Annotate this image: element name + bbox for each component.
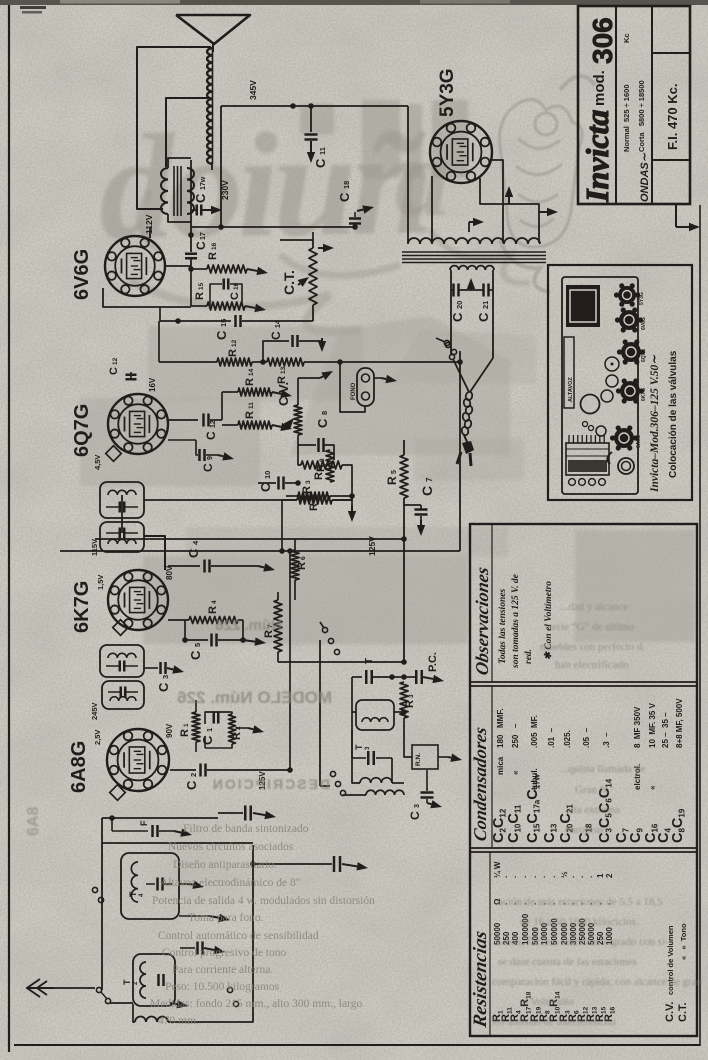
svg-text:C.T.: C.T.: [281, 270, 297, 295]
svg-text:T: T: [354, 744, 364, 750]
svg-text:C: C: [337, 192, 352, 202]
ground P.C.: [423, 677, 433, 679]
svg-text:16V: 16V: [148, 377, 157, 392]
wire aerial loop: [137, 47, 211, 209]
svg-text:ALTAVOZ: ALTAVOZ: [568, 377, 574, 402]
svg-text:los antenas de interferencias: los antenas de interferencias: [492, 1016, 616, 1028]
resistor R4 / C5 parallel: [168, 619, 189, 621]
svg-text:Todas las tensiones: Todas las tensiones: [498, 589, 508, 664]
aerial switch: [96, 987, 101, 992]
FONO jack: [357, 368, 374, 406]
svg-text:C.T.: C.T.: [677, 1002, 689, 1022]
title block F.I. box: [652, 52, 690, 54]
ground R.N.: [438, 756, 448, 758]
wire 6V6G plate: [164, 265, 191, 267]
svg-text:Resistencias: Resistencias: [470, 929, 491, 1030]
ground R15: [245, 306, 255, 308]
svg-text:red.: red.: [524, 649, 534, 664]
svg-text:Medidas: fondo 215 mm., alto 3: Medidas: fondo 215 mm., alto 300 mm., la…: [150, 998, 362, 1010]
ground C3: [167, 668, 173, 669]
wire bus x352: [351, 490, 353, 500]
svg-text:345V: 345V: [248, 80, 258, 100]
ground arrow heater tap: [468, 222, 470, 232]
svg-text:C: C: [193, 193, 208, 203]
valve 6Q7G location: [621, 342, 641, 362]
svg-text:470 mm.: 470 mm.: [158, 1015, 199, 1027]
svg-text:R.N.: R.N.: [415, 753, 422, 766]
wire to T2: [110, 1002, 133, 1004]
svg-text:Peso: 10.500 kilogramos: Peso: 10.500 kilogramos: [165, 981, 280, 993]
svg-text:...quista llamada de: ...quista llamada de: [560, 763, 645, 775]
svg-text:12: 12: [112, 357, 119, 365]
resistor R16: [207, 265, 247, 273]
svg-text:P.C.: P.C.: [427, 652, 439, 672]
svg-text:2: 2: [605, 873, 614, 878]
aerial input arrow: [28, 987, 54, 989]
svg-text:2,5V: 2,5V: [93, 730, 102, 745]
svg-text:17: 17: [200, 232, 207, 240]
bottom coil pair: [135, 1017, 168, 1022]
svg-text:C: C: [315, 418, 330, 428]
antenna coil L1: [207, 48, 212, 164]
ground R4C5: [243, 640, 255, 642]
ground R14: [272, 392, 281, 394]
svg-text:.3 –: .3 –: [602, 732, 611, 748]
ground R11: [272, 425, 281, 427]
svg-text:R: R: [404, 700, 416, 708]
arrow T4 right: [210, 916, 219, 918]
svg-text:5Y3G: 5Y3G: [437, 68, 458, 117]
wire 5Y3G cathode: [431, 176, 433, 243]
wire coil box link: [394, 711, 404, 713]
capacitor C8: [297, 435, 299, 460]
svg-text:.025.: .025.: [563, 730, 572, 748]
capacitor C14: [263, 341, 289, 362]
table section divider 1: [470, 681, 697, 683]
wire 125V rail: [95, 538, 404, 540]
wire left column down: [158, 321, 160, 362]
svg-text:8 MF 350V: 8 MF 350V: [633, 706, 642, 748]
svg-text:5: 5: [391, 470, 398, 474]
resistor R10: [298, 492, 330, 500]
svg-text:125V: 125V: [367, 536, 377, 556]
svg-text:15: 15: [219, 319, 228, 327]
svg-text:mica: mica: [496, 756, 505, 775]
svg-text:Filtro de banda sintonizado: Filtro de banda sintonizado: [183, 823, 309, 835]
ground arrow rectifier: [508, 197, 510, 204]
svg-text:13: 13: [280, 366, 287, 374]
band coil T4 box: [121, 853, 179, 919]
svg-text:16: 16: [233, 282, 240, 290]
capacitor C4: [168, 565, 200, 567]
svg-text:ONDAS∼: ONDAS∼: [639, 152, 651, 202]
ground C7: [420, 520, 422, 525]
wire top elbow to R13 bus: [297, 378, 299, 396]
ground arrow HV out: [539, 211, 547, 213]
svg-text:Colocación de las válvulas: Colocación de las válvulas: [668, 350, 679, 478]
filament winding: [450, 266, 494, 270]
svg-text:mod.: mod.: [591, 70, 608, 106]
ground C4: [258, 566, 264, 567]
svg-text:306: 306: [587, 17, 618, 64]
table header divider lines: [491, 524, 493, 682]
svg-text:de 16 a 50 1600 kilociclos.: de 16 a 50 1600 kilociclos.: [520, 916, 639, 928]
svg-text:20: 20: [455, 301, 464, 309]
capacitor C21: [482, 284, 485, 297]
wire FONO stem: [340, 362, 365, 412]
resistor R6: [291, 550, 299, 580]
wire mains V: [453, 359, 469, 392]
svg-text:«: «: [648, 785, 657, 790]
title block frame: [578, 6, 690, 204]
svg-text:6A8G: 6A8G: [68, 741, 90, 793]
svg-text:8+8 MF, 500V: 8+8 MF, 500V: [675, 698, 684, 748]
svg-text:C: C: [108, 367, 120, 375]
capacitor C3: [144, 667, 158, 669]
svg-text:8: 8: [320, 411, 329, 415]
ground C14: [299, 340, 322, 342]
wire HT secondary left: [450, 270, 452, 355]
svg-text:¼ W: ¼ W: [493, 861, 502, 878]
wire bus x282: [281, 500, 283, 551]
ground arrow mid: [351, 496, 353, 505]
svg-text:«: «: [511, 770, 520, 775]
resistor R14: [238, 388, 272, 396]
capacitor C12 top: [130, 372, 132, 380]
svg-text:Diseño antiparasitario.: Diseño antiparasitario.: [173, 859, 277, 871]
svg-text:1: 1: [205, 728, 214, 732]
wire IF cans link: [121, 495, 123, 533]
aerial IF can: [102, 681, 144, 709]
ground Cx: [427, 803, 431, 804]
svg-text:C.V.: C.V.: [664, 1002, 676, 1022]
svg-text:·: ·: [569, 875, 578, 878]
svg-text:1: 1: [183, 723, 190, 727]
svg-text:Control progresivo de tono: Control progresivo de tono: [162, 947, 286, 959]
band switch bottom: [330, 771, 335, 776]
wiper C.T.: [298, 283, 300, 285]
wire aerial to switch: [54, 987, 95, 989]
svg-text:R: R: [244, 411, 256, 419]
volume control C.V.: [294, 405, 302, 435]
wire antenna coil top to rail: [220, 106, 222, 227]
small sockets: [583, 422, 588, 427]
svg-text:1: 1: [596, 873, 605, 878]
AVC coupling capacitor C6: [333, 856, 336, 872]
IF transformer T3 primary can: [100, 522, 144, 552]
table frame: [470, 524, 697, 1036]
tube 6A8G: [107, 729, 169, 791]
svg-text:11: 11: [248, 402, 255, 409]
svg-text:16: 16: [211, 242, 218, 250]
ground T4: [179, 883, 190, 885]
svg-text:R: R: [244, 378, 256, 386]
wire 6V6G screen: [149, 227, 151, 238]
wire 6V6G grid loop: [103, 288, 191, 307]
svg-text:Kc: Kc: [622, 33, 631, 43]
svg-text:3: 3: [161, 675, 170, 679]
wire padder junction: [392, 676, 404, 678]
wire HT secondary right: [492, 270, 494, 358]
svg-text:C: C: [258, 482, 273, 492]
node plate junction: [188, 232, 194, 238]
svg-text:Núm. 226: Núm. 226: [215, 617, 282, 634]
wire osc to switch: [343, 794, 366, 796]
capacitor C2: [170, 769, 196, 771]
capacitor T (padder): [352, 676, 362, 678]
capacitor C11: [310, 106, 312, 132]
table section divider 2: [470, 847, 697, 849]
svg-text:R: R: [313, 472, 325, 480]
svg-text:1,5V: 1,5V: [96, 575, 105, 590]
capacitor P.C.: [415, 670, 418, 684]
capacitor T4: [156, 878, 159, 891]
svg-text:comparación fácil y rápida, co: comparación fácil y rápida, con alcance …: [492, 976, 703, 988]
AVC capacitor: [244, 806, 247, 821]
svg-text:245V: 245V: [90, 702, 99, 720]
svg-text:tubul.: tubul.: [530, 768, 539, 790]
wire R3 row: [144, 499, 297, 501]
svg-text:250 –: 250 –: [511, 723, 520, 748]
svg-text:3: 3: [414, 804, 421, 808]
svg-text:europeas: europeas: [565, 824, 604, 836]
wire 6V6G cathode bus: [190, 269, 192, 306]
svg-text:son tomadas a 125 V. de: son tomadas a 125 V. de: [511, 573, 521, 669]
ALTAVOZ plate: [564, 337, 574, 408]
switch contact top right: [444, 340, 449, 345]
wire switch bus vertical: [319, 640, 321, 786]
wire right bus vertical: [459, 351, 461, 551]
tone control C.T.: [280, 240, 313, 248]
svg-text:.05 –: .05 –: [582, 727, 591, 748]
ground C6: [342, 864, 357, 866]
resistor R3 top: [297, 496, 332, 504]
svg-text:F.I. 470 Kc.: F.I. 470 Kc.: [665, 84, 680, 150]
mains transformer block: [566, 285, 600, 327]
svg-text:6V6G: 6V6G: [641, 317, 647, 330]
svg-text:6A8G: 6A8G: [636, 435, 642, 448]
output transformer T5: [161, 168, 168, 214]
svg-text:Corta 5800 ÷ 18500: Corta 5800 ÷ 18500: [637, 80, 646, 152]
svg-text:Toma para fono.: Toma para fono.: [188, 912, 264, 924]
resistor R7: [274, 600, 282, 652]
capacitor C7: [415, 508, 428, 511]
capacitor C10: [277, 477, 280, 490]
svg-text:·: ·: [531, 875, 540, 878]
svg-text:10: 10: [263, 471, 272, 479]
svg-text:90V: 90V: [165, 723, 174, 738]
valve 5Y3G location: [618, 286, 636, 304]
resistor R8: [326, 450, 334, 482]
svg-text:·: ·: [550, 875, 559, 878]
capacitor F: [112, 830, 148, 832]
ground C1R2: [248, 728, 253, 729]
resistor R1: [192, 712, 200, 742]
svg-text:Para corriente alterna.: Para corriente alterna.: [172, 964, 273, 976]
svg-text:6V6G: 6V6G: [71, 249, 93, 300]
svg-text:muebles con perfecto d.: muebles con perfecto d.: [540, 641, 645, 653]
wire HT to filter arrow: [675, 205, 677, 227]
svg-text:C: C: [186, 548, 201, 558]
capacitor C17w: [196, 205, 199, 216]
capacitor C1 / R2 parallel: [205, 712, 230, 724]
ground F: [174, 831, 181, 833]
svg-text:T: T: [128, 891, 138, 897]
wire centre tap: [459, 289, 483, 291]
diamond 6K7G: [113, 620, 129, 636]
wire aerial loop inner: [166, 98, 208, 167]
svg-text:Invicta: Invicta: [579, 110, 615, 203]
mains plug: [464, 435, 468, 444]
svg-text:4,5V: 4,5V: [93, 455, 102, 470]
svg-text:21: 21: [481, 301, 490, 309]
switch contacts T2 right: [227, 987, 232, 992]
dial lamps 1-4: [569, 479, 576, 486]
svg-text:R: R: [301, 486, 313, 494]
svg-text:R: R: [194, 292, 206, 300]
svg-text:180 MMF.: 180 MMF.: [496, 708, 505, 748]
band switch top: [322, 627, 327, 632]
wire AVC horizontals: [102, 842, 253, 844]
wire T3 frame: [351, 730, 353, 758]
svg-text:R: R: [207, 606, 219, 614]
svg-text:C: C: [229, 292, 241, 300]
ground R16: [247, 269, 257, 271]
svg-text:...dad y alcance: ...dad y alcance: [560, 601, 628, 613]
svg-text:FONO: FONO: [351, 382, 357, 400]
svg-text:Control automático de sensibil: Control automático de sensibilidad: [158, 930, 319, 942]
svg-text:·: ·: [578, 875, 587, 878]
ground C11: [310, 141, 312, 152]
resistor R15: [207, 302, 245, 310]
diamond 6A8G: [110, 785, 126, 801]
wire osc vertical: [403, 539, 405, 660]
power transformer T6: [408, 238, 540, 244]
valve 6V6G location: [619, 310, 639, 330]
wire 5Y3G heater: [480, 178, 539, 243]
svg-text:C: C: [476, 312, 491, 322]
wire C15 to grid: [159, 307, 161, 321]
svg-text:6K7G: 6K7G: [641, 388, 647, 401]
svg-text:17w: 17w: [200, 176, 207, 190]
svg-text:112V: 112V: [144, 214, 154, 234]
capacitor C bottom: [421, 791, 434, 794]
wire 345V rail: [221, 105, 408, 107]
svg-text:C: C: [419, 486, 435, 496]
resistor R13: [267, 358, 304, 366]
switch contacts T4: [92, 887, 97, 892]
ground C9: [218, 455, 223, 456]
R.N. network: [412, 745, 438, 769]
svg-text:·: ·: [511, 875, 520, 878]
svg-text:10 MF. 35 V: 10 MF. 35 V: [648, 702, 657, 748]
wire avc long: [253, 863, 310, 865]
svg-text:25 – 35 –: 25 – 35 –: [661, 712, 670, 748]
svg-text:C: C: [156, 682, 171, 692]
tube 6Q7G: [108, 394, 168, 454]
ground mid cap: [204, 948, 214, 950]
svg-text:C.V.: C.V.: [276, 382, 291, 406]
svg-text:Gran N.: Gran N.: [575, 784, 611, 796]
resistor R12: [217, 358, 252, 366]
capacitor C15: [160, 320, 231, 322]
resistor R11: [238, 421, 272, 429]
svg-text:han electrificado: han electrificado: [555, 659, 629, 671]
svg-text:C: C: [200, 735, 215, 745]
svg-text:T: T: [122, 979, 132, 985]
IF transformer T3 secondary can: [100, 482, 144, 518]
valve 6A8G location: [614, 428, 634, 448]
svg-text:6Q7G: 6Q7G: [71, 404, 93, 457]
oscillator coil 2: [360, 778, 392, 783]
svg-text:·: ·: [540, 875, 549, 878]
svg-text:3: 3: [408, 694, 415, 698]
svg-text:ria extrema: ria extrema: [570, 804, 620, 816]
svg-text:DESCRIPCION: DESCRIPCION: [211, 776, 330, 792]
svg-text:C: C: [184, 780, 199, 790]
svg-text:Normal 525 ÷ 1600: Normal 525 ÷ 1600: [622, 85, 631, 153]
ground AVC cap: [253, 813, 265, 815]
svg-text:al Voltivalio: al Voltivalio: [520, 996, 574, 1008]
svg-text:C: C: [408, 811, 422, 820]
wire bottom coil to bus: [168, 845, 253, 1022]
tube 6K7G: [108, 570, 168, 630]
svg-text:15: 15: [198, 282, 205, 290]
svg-text:se dase cuenta de las estacion: se dase cuenta de las estaciones: [498, 956, 637, 968]
switch mains: [445, 342, 450, 347]
wire 6K7G plate: [144, 536, 165, 570]
dial assembly: [566, 443, 609, 475]
svg-text:18: 18: [342, 181, 351, 189]
wire osc coil leads: [352, 677, 356, 712]
svg-text:T: T: [364, 658, 375, 664]
svg-text:C: C: [188, 650, 203, 660]
valve box frame: [548, 265, 692, 500]
svg-text:.005 MF.: .005 MF.: [530, 715, 539, 748]
oscillator bottom coils: [366, 790, 404, 795]
wire AVC rail: [60, 550, 460, 552]
svg-text:R: R: [179, 729, 191, 737]
svg-text:Observaciones: Observaciones: [472, 565, 492, 676]
wiper C.V.: [287, 425, 288, 426]
svg-text:ación de más estaciones de 5,5: ación de más estaciones de 5,5 a 18,5: [498, 896, 663, 908]
svg-text:6K7G: 6K7G: [71, 581, 93, 633]
svg-text:14: 14: [248, 368, 255, 376]
svg-text:llanos, fáciles, américas logr: llanos, fáciles, américas logrado con si…: [495, 936, 669, 948]
capacitor mid: [196, 942, 199, 955]
svg-text:3: 3: [305, 480, 312, 484]
svg-text:Condensadores: Condensadores: [470, 725, 490, 842]
svg-text:115V: 115V: [90, 539, 99, 556]
svg-text:Invicta–Mod.306–125 V.50∼: Invicta–Mod.306–125 V.50∼: [649, 355, 661, 493]
wire plate lead 6V6: [190, 160, 192, 252]
svg-text:5Y3G: 5Y3G: [639, 292, 645, 305]
svg-text:C: C: [450, 312, 465, 322]
IF input can: [100, 645, 144, 677]
wire 5Y3G anode left: [407, 106, 409, 243]
svg-text:R: R: [227, 349, 239, 357]
resistor R3 osc: [400, 682, 408, 718]
svg-text:« « Tono: « « Tono: [679, 923, 688, 960]
capacitor C18: [354, 225, 356, 227]
tube 5Y3G: [430, 121, 492, 183]
svg-text:R: R: [385, 476, 399, 485]
svg-text:5: 5: [193, 643, 202, 647]
svg-text:serie “G” de último: serie “G” de último: [548, 621, 634, 633]
chassis outline: [562, 277, 638, 494]
wire bus x290: [289, 551, 291, 770]
wire R7 osc link: [278, 661, 404, 663]
